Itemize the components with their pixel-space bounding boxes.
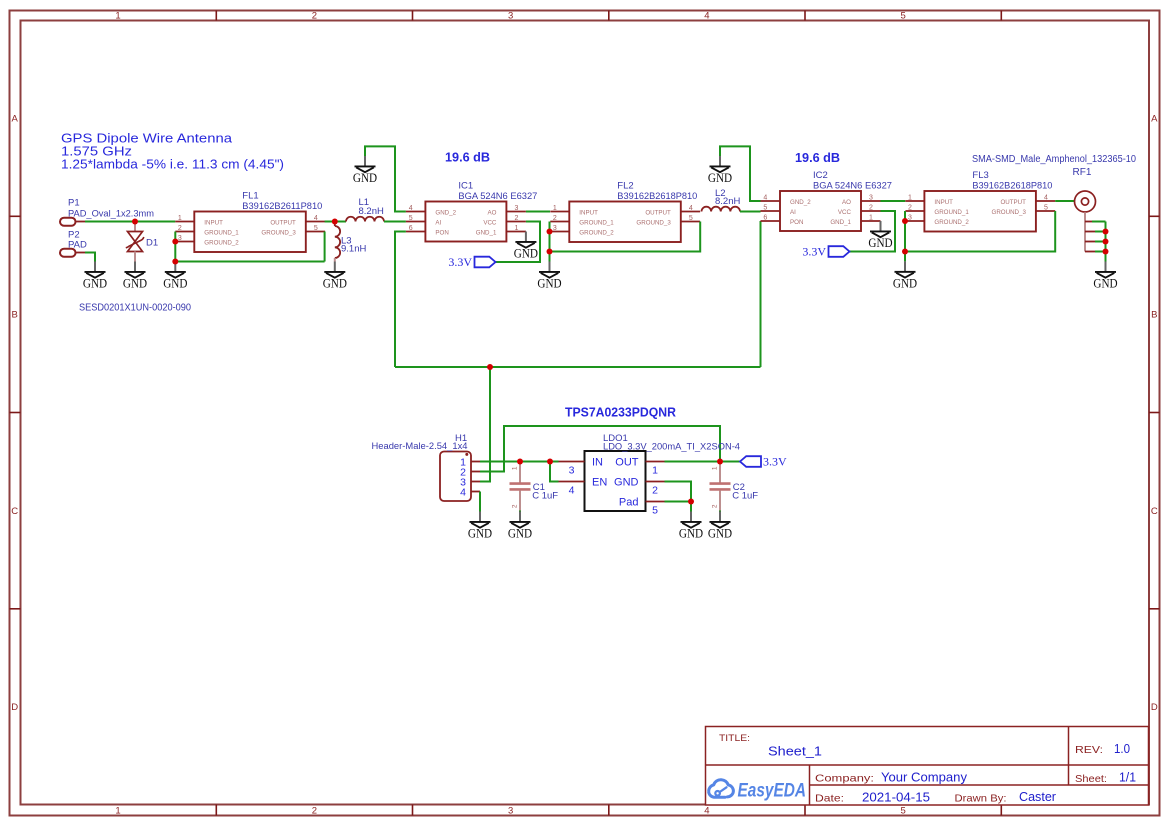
junction <box>1103 239 1109 245</box>
svg-text:GND: GND <box>537 277 561 291</box>
junction <box>1103 229 1109 235</box>
svg-text:1: 1 <box>512 466 519 470</box>
svg-text:B39162B2611P810: B39162B2611P810 <box>242 201 322 212</box>
svg-text:Company:: Company: <box>815 772 874 784</box>
svg-text:3: 3 <box>514 205 518 212</box>
wire <box>384 221 406 223</box>
svg-text:GND_2: GND_2 <box>435 210 456 217</box>
header H1 <box>372 433 481 501</box>
svg-text:SMA-SMD_Male_Amphenol_132365-1: SMA-SMD_Male_Amphenol_132365-10 <box>972 154 1136 165</box>
svg-text:REV:: REV: <box>1075 744 1103 756</box>
svg-text:3: 3 <box>178 235 182 242</box>
wire <box>324 232 326 262</box>
svg-text:PON: PON <box>790 219 803 226</box>
svg-text:C: C <box>11 506 18 517</box>
wire <box>1055 200 1074 202</box>
svg-text:GND_1: GND_1 <box>476 230 497 237</box>
svg-text:VCC: VCC <box>838 209 852 216</box>
svg-text:5: 5 <box>689 215 693 222</box>
svg-text:1: 1 <box>712 466 719 470</box>
svg-text:GROUND_1: GROUND_1 <box>579 220 614 227</box>
svg-text:FL3: FL3 <box>972 170 988 181</box>
annotation GPS antenna note <box>61 130 284 171</box>
junction <box>517 459 523 465</box>
wire <box>1095 241 1106 243</box>
ground <box>508 512 532 541</box>
wire <box>905 211 1055 252</box>
svg-text:5: 5 <box>763 204 767 211</box>
svg-text:INPUT: INPUT <box>934 199 953 206</box>
svg-text:8.2nH: 8.2nH <box>715 196 740 207</box>
svg-text:3.3V: 3.3V <box>802 245 826 259</box>
svg-text:2: 2 <box>908 204 912 211</box>
svg-text:GROUND_2: GROUND_2 <box>934 219 969 226</box>
svg-text:Drawn By:: Drawn By: <box>955 793 1007 805</box>
wire <box>550 462 559 482</box>
svg-text:Pad: Pad <box>619 497 639 509</box>
diode D1 <box>126 223 158 262</box>
svg-text:INPUT: INPUT <box>204 220 223 227</box>
junction <box>902 218 908 224</box>
junction <box>717 459 723 465</box>
svg-text:GROUND_3: GROUND_3 <box>992 209 1027 216</box>
svg-text:A: A <box>12 113 19 124</box>
junction <box>547 229 553 235</box>
IC IC1 <box>406 181 538 242</box>
svg-text:D: D <box>1151 702 1158 713</box>
svg-text:GND: GND <box>83 277 107 291</box>
svg-text:3.3V: 3.3V <box>763 455 787 469</box>
svg-text:TITLE:: TITLE: <box>719 733 750 744</box>
svg-text:Sheet_1: Sheet_1 <box>768 744 822 759</box>
svg-text:GND: GND <box>353 171 377 185</box>
svg-text:2: 2 <box>712 504 719 508</box>
svg-text:RF1: RF1 <box>1073 167 1092 178</box>
svg-text:EasyEDA: EasyEDA <box>738 780 807 801</box>
svg-text:D1: D1 <box>146 238 158 249</box>
svg-text:2: 2 <box>869 204 873 211</box>
inductor L2 <box>702 188 741 212</box>
svg-text:1/1: 1/1 <box>1119 771 1136 785</box>
wire <box>174 232 176 262</box>
svg-text:A: A <box>1151 113 1158 124</box>
wire <box>740 211 761 213</box>
ground <box>83 262 107 291</box>
svg-text:GND: GND <box>679 527 703 541</box>
svg-text:2: 2 <box>178 225 182 232</box>
ground <box>353 156 377 185</box>
svg-text:GND: GND <box>123 277 147 291</box>
wire <box>760 221 762 367</box>
junction <box>487 364 493 370</box>
svg-text:GND: GND <box>893 277 917 291</box>
ground <box>468 512 492 541</box>
svg-text:BGA 524N6 E6327: BGA 524N6 E6327 <box>813 181 892 192</box>
svg-text:4: 4 <box>1044 194 1048 201</box>
power flag 3.3V <box>740 455 787 469</box>
junction <box>902 249 908 255</box>
wire <box>480 367 490 482</box>
svg-text:IC1: IC1 <box>458 181 473 192</box>
wire <box>850 211 896 252</box>
regulator LDO1 <box>559 433 741 516</box>
svg-text:Date:: Date: <box>815 792 844 804</box>
filter FL3 <box>905 170 1055 232</box>
svg-text:GND: GND <box>868 236 892 250</box>
filter FL1 <box>175 191 325 253</box>
wire <box>395 366 761 368</box>
svg-text:FL1: FL1 <box>242 191 258 202</box>
capacitor C2 <box>710 463 759 513</box>
svg-text:INPUT: INPUT <box>579 210 598 217</box>
svg-text:LDO_3.3V_200mA_TI_X2SON-4: LDO_3.3V_200mA_TI_X2SON-4 <box>603 442 740 453</box>
wire <box>526 211 550 213</box>
svg-text:Caster: Caster <box>1019 790 1056 804</box>
svg-text:GND: GND <box>514 247 538 261</box>
svg-text:4: 4 <box>763 194 767 201</box>
svg-text:GROUND_3: GROUND_3 <box>261 230 296 237</box>
svg-text:VCC: VCC <box>483 220 497 227</box>
svg-text:3.3V: 3.3V <box>448 255 472 269</box>
svg-text:2: 2 <box>514 215 518 222</box>
svg-text:Your Company: Your Company <box>881 771 968 785</box>
wire <box>665 501 692 503</box>
svg-text:1.0: 1.0 <box>1114 741 1130 756</box>
svg-text:C 1uF: C 1uF <box>732 491 758 502</box>
wire <box>85 253 95 262</box>
svg-text:OUTPUT: OUTPUT <box>1000 199 1026 206</box>
svg-text:D: D <box>11 702 18 713</box>
svg-text:GROUND_2: GROUND_2 <box>579 230 614 237</box>
svg-text:4: 4 <box>409 205 413 212</box>
svg-text:3: 3 <box>869 194 873 201</box>
svg-text:OUTPUT: OUTPUT <box>270 220 296 227</box>
svg-text:IC2: IC2 <box>813 170 828 181</box>
svg-text:Sheet:: Sheet: <box>1075 773 1107 785</box>
ground <box>323 262 347 291</box>
wire <box>665 461 741 463</box>
connector RF1 <box>1073 167 1096 252</box>
wire <box>325 221 346 223</box>
svg-text:AI: AI <box>435 220 441 227</box>
svg-text:3: 3 <box>569 464 575 476</box>
svg-text:4: 4 <box>314 215 318 222</box>
junction <box>688 499 694 505</box>
svg-text:IN: IN <box>592 457 603 469</box>
svg-text:4: 4 <box>704 805 709 816</box>
svg-text:5: 5 <box>314 225 318 232</box>
svg-text:1: 1 <box>115 10 120 21</box>
svg-text:GROUND_2: GROUND_2 <box>204 240 239 247</box>
connector P2 <box>60 229 87 256</box>
wire <box>1095 231 1106 233</box>
svg-text:4: 4 <box>460 486 466 498</box>
ground <box>679 512 703 541</box>
ground <box>868 221 892 250</box>
svg-text:C: C <box>1151 506 1158 517</box>
svg-text:2: 2 <box>512 504 519 508</box>
svg-text:B: B <box>1151 310 1157 321</box>
svg-text:GND: GND <box>468 527 492 541</box>
ground <box>708 156 732 185</box>
wire <box>395 232 406 368</box>
svg-text:5: 5 <box>652 504 658 516</box>
svg-text:1.25*lambda -5% i.e. 11.3 cm (: 1.25*lambda -5% i.e. 11.3 cm (4.45") <box>61 156 284 171</box>
svg-text:GROUND_3: GROUND_3 <box>636 220 671 227</box>
svg-text:EN: EN <box>592 477 607 489</box>
svg-text:GROUND_1: GROUND_1 <box>204 230 239 237</box>
ground <box>163 262 187 291</box>
svg-text:6: 6 <box>763 214 767 221</box>
junction <box>547 249 553 255</box>
svg-text:GND_1: GND_1 <box>830 219 851 226</box>
svg-text:4: 4 <box>569 484 575 496</box>
wire <box>549 222 551 262</box>
svg-text:AI: AI <box>790 209 796 216</box>
svg-text:4: 4 <box>689 205 693 212</box>
ground <box>708 512 732 541</box>
svg-text:5: 5 <box>1044 204 1048 211</box>
wire <box>904 211 906 261</box>
svg-text:5: 5 <box>409 215 413 222</box>
svg-text:GND_2: GND_2 <box>790 199 811 206</box>
svg-text:2: 2 <box>312 805 317 816</box>
wire <box>85 221 175 223</box>
wire <box>1105 222 1107 262</box>
svg-text:FL2: FL2 <box>617 181 633 192</box>
svg-text:1: 1 <box>115 805 120 816</box>
wire <box>665 482 692 502</box>
ground <box>123 262 147 291</box>
svg-text:GROUND_1: GROUND_1 <box>934 209 969 216</box>
svg-text:B: B <box>12 310 18 321</box>
ground <box>893 261 917 290</box>
svg-text:GND: GND <box>1093 277 1117 291</box>
svg-text:PAD: PAD <box>68 240 87 251</box>
svg-text:B39162B2618P810: B39162B2618P810 <box>972 181 1052 192</box>
junction <box>547 459 553 465</box>
inductor L3 <box>335 224 367 262</box>
ground <box>1093 262 1117 291</box>
svg-text:OUT: OUT <box>615 457 639 469</box>
svg-text:8.2nH: 8.2nH <box>359 206 384 217</box>
wire <box>480 461 559 463</box>
svg-text:5: 5 <box>900 10 905 21</box>
svg-text:1: 1 <box>908 194 912 201</box>
power flag 3.3V <box>448 255 495 269</box>
filter FL2 <box>550 181 700 243</box>
svg-text:2: 2 <box>312 10 317 21</box>
junction <box>132 219 138 225</box>
IC IC2 <box>761 170 893 231</box>
svg-text:Header-Male-2.54_1x4: Header-Male-2.54_1x4 <box>372 441 468 452</box>
svg-text:C 1uF: C 1uF <box>532 491 558 502</box>
svg-text:2021-04-15: 2021-04-15 <box>862 790 930 804</box>
junction <box>172 239 178 245</box>
ground <box>537 262 561 291</box>
svg-text:6: 6 <box>409 225 413 232</box>
svg-text:5: 5 <box>900 805 905 816</box>
svg-text:GND: GND <box>323 277 347 291</box>
svg-text:2: 2 <box>652 484 658 496</box>
svg-text:B39162B2618P810: B39162B2618P810 <box>617 191 697 202</box>
svg-text:1: 1 <box>869 214 873 221</box>
svg-text:AO: AO <box>487 210 496 217</box>
wire <box>480 426 720 472</box>
wire <box>1095 251 1106 253</box>
junction <box>172 259 178 265</box>
svg-text:GND: GND <box>708 171 732 185</box>
power flag 3.3V <box>802 245 849 259</box>
wire <box>496 222 541 263</box>
svg-text:OUTPUT: OUTPUT <box>645 210 671 217</box>
svg-text:3: 3 <box>908 214 912 221</box>
svg-text:19.6 dB: 19.6 dB <box>445 150 490 165</box>
wire <box>550 222 701 252</box>
svg-text:3: 3 <box>508 805 513 816</box>
svg-text:4: 4 <box>704 10 709 21</box>
svg-text:1: 1 <box>514 225 518 232</box>
wire <box>365 146 406 211</box>
wire <box>720 146 761 201</box>
wire <box>690 502 692 512</box>
svg-text:PAD_Oval_1x2.3mm: PAD_Oval_1x2.3mm <box>68 208 154 219</box>
svg-text:3: 3 <box>553 225 557 232</box>
capacitor C1 <box>510 463 559 513</box>
svg-text:PON: PON <box>435 230 448 237</box>
svg-text:GND: GND <box>614 477 639 489</box>
svg-text:SESD0201X1UN-0020-090: SESD0201X1UN-0020-090 <box>79 303 191 314</box>
svg-text:2: 2 <box>553 215 557 222</box>
svg-text:9.1nH: 9.1nH <box>341 244 366 255</box>
svg-text:P1: P1 <box>68 198 80 209</box>
svg-text:TPS7A0233PDQNR: TPS7A0233PDQNR <box>565 405 677 420</box>
svg-text:GND: GND <box>708 527 732 541</box>
svg-text:GND: GND <box>163 277 187 291</box>
svg-text:19.6 dB: 19.6 dB <box>795 150 840 165</box>
svg-text:1: 1 <box>652 464 658 476</box>
svg-text:AO: AO <box>842 199 851 206</box>
wire <box>881 200 906 202</box>
svg-text:1: 1 <box>553 205 557 212</box>
junction <box>1103 249 1109 255</box>
wire <box>479 492 481 512</box>
svg-text:1: 1 <box>178 215 182 222</box>
connector P1 <box>60 198 154 226</box>
svg-text:BGA 524N6 E6327: BGA 524N6 E6327 <box>458 191 537 202</box>
junction <box>332 219 338 225</box>
wire <box>1092 221 1106 223</box>
svg-text:3: 3 <box>508 10 513 21</box>
ground <box>514 232 538 261</box>
svg-text:GND: GND <box>508 527 532 541</box>
wire <box>175 261 324 263</box>
inductor L1 <box>346 197 384 222</box>
